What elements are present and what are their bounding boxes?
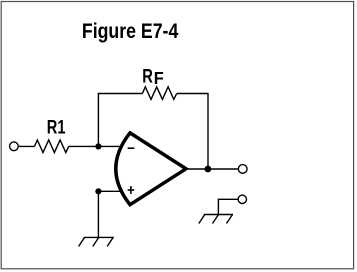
label RF (R with subscript F): [142, 67, 164, 89]
node: output junction dot: [205, 166, 212, 173]
wire: feedback right vertical down to output node: [207, 93, 209, 169]
output terminal circle: [238, 165, 247, 174]
wire: op-amp output to output node: [186, 168, 208, 170]
wire: lower terminal to right ground: [218, 199, 238, 214]
input terminal circle: [10, 142, 19, 151]
op-amp minus sign: [128, 147, 135, 149]
op-amp plus sign: [128, 186, 135, 194]
wire: node to op-amp minus input: [98, 145, 122, 147]
node: inverting input junction dot: [95, 143, 101, 149]
wire: noninverting input to ground node: [98, 190, 122, 192]
wire: feedback top left segment: [98, 93, 143, 95]
title: Figure E7-4: [82, 20, 179, 43]
node: noninverting input corner dot: [95, 188, 101, 194]
svg-text:R: R: [142, 67, 153, 88]
resistor R1 zigzag: [35, 140, 69, 153]
op-amp U1 body (triangle with curved back): [116, 133, 186, 205]
svg-text:F: F: [154, 68, 164, 88]
wire: feedback left vertical: [97, 94, 99, 147]
ground symbol (right, reference for output): [199, 215, 233, 224]
wire: feedback top right segment: [177, 93, 208, 95]
label R1: [47, 118, 66, 139]
wire: R1 to inverting-input node: [69, 145, 99, 147]
ground symbol (left, at noninverting input): [79, 237, 114, 246]
wire: output node to output terminal: [208, 168, 238, 170]
wire: input terminal to R1: [18, 145, 35, 147]
resistor RF zigzag: [142, 87, 176, 100]
wire: down to left ground: [97, 191, 99, 237]
svg-text:R1: R1: [47, 118, 66, 139]
lower-right terminal circle: [238, 195, 246, 203]
svg-text:Figure E7-4: Figure E7-4: [82, 20, 179, 43]
